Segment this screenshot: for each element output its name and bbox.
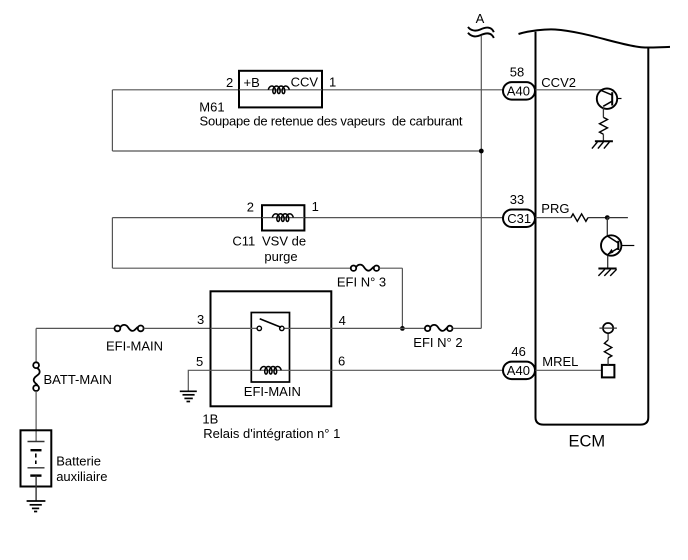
coil CCV inside M61 xyxy=(268,86,289,94)
switch blade xyxy=(260,319,282,328)
wire fuse EFI-MAIN to relay pin3 xyxy=(144,327,211,329)
svg-text:4: 4 xyxy=(339,313,346,328)
fuse BATT-MAIN xyxy=(33,362,39,391)
battery plate long top xyxy=(28,441,45,443)
svg-text:5: 5 xyxy=(196,354,203,369)
svg-text:EFI-MAIN: EFI-MAIN xyxy=(106,338,163,353)
svg-text:A40: A40 xyxy=(507,84,530,99)
load square MREL xyxy=(602,365,615,378)
fuse EFI No3 xyxy=(351,265,379,271)
svg-text:Soupape de retenue des vapeurs: Soupape de retenue des vapeurs de carbur… xyxy=(200,113,463,128)
wire emitter CCV2 xyxy=(602,108,604,118)
svg-text:VSV de: VSV de xyxy=(262,233,306,248)
svg-text:1: 1 xyxy=(312,199,319,214)
switch contact left xyxy=(257,326,261,330)
wire MREL inside ECM xyxy=(536,369,602,371)
svg-text:6: 6 xyxy=(338,354,345,369)
wire inside C11 xyxy=(262,217,304,219)
M61 pin2 wire xyxy=(112,89,239,91)
svg-text:MREL: MREL xyxy=(542,354,578,369)
svg-text:BATT-MAIN: BATT-MAIN xyxy=(44,372,112,387)
wire pin5-6 through relay xyxy=(211,369,332,371)
svg-text:purge: purge xyxy=(264,249,297,264)
ground CCV2 hatch xyxy=(592,141,613,148)
wire inside M61 xyxy=(239,89,322,91)
battery plate long lower xyxy=(28,467,45,469)
wire VSV loop bottom to fuse xyxy=(112,267,351,269)
switch contact right xyxy=(280,326,284,330)
svg-text:C11: C11 xyxy=(232,233,255,248)
wire pin3 corner to fuse EFI-MAIN xyxy=(36,327,114,329)
svg-text:auxiliaire: auxiliaire xyxy=(56,469,107,484)
wire square to resistor xyxy=(607,358,609,365)
wire left rail M61 loop xyxy=(111,90,113,151)
connector oval A40 pin58 xyxy=(503,82,535,100)
wire left rail VSV loop xyxy=(111,218,113,269)
wire pin4 inside relay xyxy=(284,327,331,329)
wire fuse EFI No2 to A rail xyxy=(453,327,482,329)
svg-text:Relais d'intégration n° 1: Relais d'intégration n° 1 xyxy=(203,426,340,441)
junction dot PRG xyxy=(605,215,610,220)
junction dot pin4 row xyxy=(400,326,405,331)
junction dot M61 loop / A rail xyxy=(479,149,484,154)
VSV pin2 wire xyxy=(112,217,262,219)
wire fuse to battery xyxy=(35,391,37,442)
resistor CCV2 xyxy=(600,117,608,134)
wire EFI No3 drop xyxy=(401,268,403,328)
wire pin3 inside relay xyxy=(211,327,258,329)
solenoid VSV C11 box xyxy=(262,205,304,230)
wire batt rail down xyxy=(35,328,37,362)
battery dashed middle xyxy=(35,454,37,465)
svg-text:33: 33 xyxy=(510,192,524,207)
ground PRG hatch xyxy=(598,269,616,276)
ground battery xyxy=(27,501,46,512)
svg-text:EFI-MAIN: EFI-MAIN xyxy=(244,384,301,399)
svg-text:CCV: CCV xyxy=(291,74,319,89)
ground relay pin5 xyxy=(180,391,197,401)
ECM outline top torn edge xyxy=(519,29,671,47)
wire stub right of node xyxy=(607,217,628,219)
wire from junction down to EFI No2 corner xyxy=(480,151,482,328)
svg-text:Batterie: Batterie xyxy=(56,454,101,469)
coil inside C11 xyxy=(272,214,293,222)
wire pin4 to junction xyxy=(331,327,425,329)
svg-text:EFI N° 3: EFI N° 3 xyxy=(337,275,386,290)
wire fuse EFI No3 to corner xyxy=(379,267,402,269)
wire pin5 to ground xyxy=(188,370,210,391)
VSV pin1 wire to connector xyxy=(304,217,503,219)
M61 pin1 wire to connector xyxy=(322,89,504,91)
fuse EFI No2 xyxy=(425,325,453,331)
wire resistor to circle xyxy=(607,333,609,340)
transistor Q CCV2 xyxy=(597,89,622,109)
supply circle MREL xyxy=(603,323,613,333)
svg-text:A: A xyxy=(476,11,485,26)
svg-text:M61: M61 xyxy=(199,100,224,115)
resistor PRG xyxy=(571,214,588,221)
resistor MREL xyxy=(604,340,611,358)
svg-text:A40: A40 xyxy=(507,363,530,378)
svg-text:2: 2 xyxy=(226,75,233,90)
svg-text:3: 3 xyxy=(197,312,204,327)
fuse EFI-MAIN xyxy=(115,325,144,331)
svg-text:1B: 1B xyxy=(202,411,218,426)
wire node to transistor xyxy=(606,218,608,236)
relay coil xyxy=(260,367,281,375)
connector oval C31 pin33 xyxy=(503,210,535,228)
wire emitter PRG to ground xyxy=(607,256,609,269)
wire M61 loop bottom xyxy=(112,150,481,152)
wire CCV2 inside ECM xyxy=(536,89,602,91)
wire battery internal xyxy=(35,476,37,501)
relay 1B outer box xyxy=(211,291,332,406)
svg-text:C31: C31 xyxy=(507,211,531,226)
wire from A down to junction xyxy=(480,36,482,151)
ECM body outline xyxy=(536,32,649,425)
supply circle crossbar xyxy=(599,327,617,329)
svg-text:1: 1 xyxy=(329,74,336,89)
wire resistor to ground xyxy=(602,134,604,141)
wire pin6 to connector xyxy=(331,369,503,371)
svg-text:ECM: ECM xyxy=(569,432,606,450)
node A break symbol xyxy=(468,27,494,38)
svg-text:58: 58 xyxy=(510,64,524,79)
solenoid M61 box xyxy=(239,71,322,108)
battery box xyxy=(21,430,52,486)
transistor Q PRG xyxy=(601,235,634,255)
svg-text:2: 2 xyxy=(247,200,254,215)
battery plate short thick xyxy=(31,449,42,451)
svg-text:CCV2: CCV2 xyxy=(541,75,576,90)
svg-text:PRG: PRG xyxy=(541,201,569,216)
connector oval A40 pin46 xyxy=(503,362,535,380)
relay inner box xyxy=(251,313,289,383)
wire PRG inside ECM xyxy=(536,217,571,219)
transistor PRG emitter arrow xyxy=(608,249,614,255)
svg-text:+B: +B xyxy=(244,75,260,90)
battery plate short thick lower xyxy=(30,474,41,476)
svg-text:46: 46 xyxy=(511,344,525,359)
wire resistor to node xyxy=(588,217,607,219)
svg-text:EFI N° 2: EFI N° 2 xyxy=(413,335,462,350)
